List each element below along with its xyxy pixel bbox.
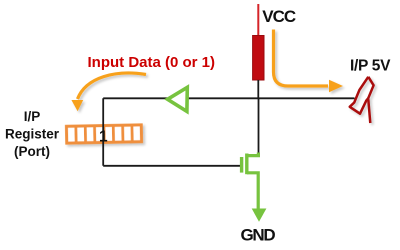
transistor Q1 (channel bar) xyxy=(245,154,248,175)
svg-text:1: 1 xyxy=(99,128,108,145)
wire right vertical (node to transistor drain) xyxy=(258,98,260,153)
I/P 5V red arrow icon xyxy=(350,77,374,123)
svg-text:Register: Register xyxy=(5,127,60,142)
wire left vertical (through register) xyxy=(102,98,104,166)
register (I/P register, 8 cells) xyxy=(66,125,141,143)
svg-text:VCC: VCC xyxy=(262,7,296,26)
svg-text:(Port): (Port) xyxy=(14,144,50,159)
wire VCC stub (red) xyxy=(257,4,259,37)
wire resistor to node xyxy=(257,80,259,99)
arrow VCC to I/P 5V (orange) xyxy=(274,30,344,93)
svg-text:GND: GND xyxy=(241,226,276,245)
svg-text:I/P: I/P xyxy=(24,109,41,124)
transistor Q1 (gate bar) xyxy=(240,157,243,173)
svg-text:Input Data (0 or 1): Input Data (0 or 1) xyxy=(88,54,216,71)
svg-text:I/P 5V: I/P 5V xyxy=(350,58,391,75)
wire top horizontal xyxy=(103,97,354,99)
resistor R1 (pull-up body) xyxy=(253,36,264,81)
transistor Q1 (drain link) xyxy=(247,153,259,156)
wire bottom horizontal (gate wire) xyxy=(103,165,241,167)
ground arrow head xyxy=(252,209,267,222)
arrow input-data (orange curved) xyxy=(71,73,146,111)
op-amp buffer U1 (green triangle) xyxy=(168,87,188,111)
transistor Q1 (source link) xyxy=(247,173,258,210)
